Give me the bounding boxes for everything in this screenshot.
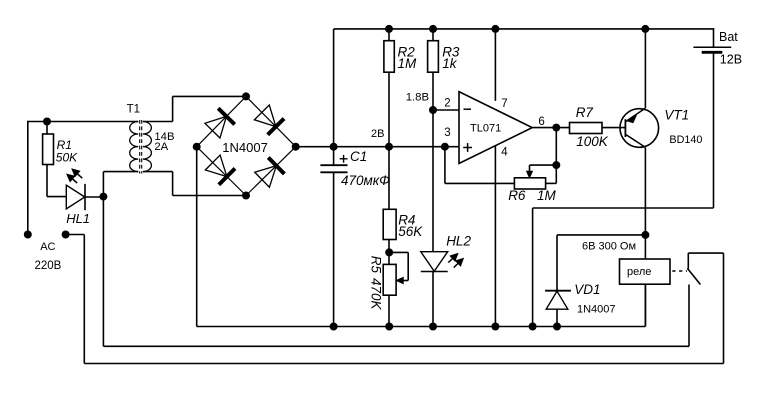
svg-text:HL1: HL1 <box>66 211 90 226</box>
svg-text:56K: 56K <box>398 224 423 239</box>
svg-text:1N4007: 1N4007 <box>577 303 616 315</box>
svg-text:1k: 1k <box>442 56 458 71</box>
svg-text:C1: C1 <box>350 149 367 164</box>
svg-text:100K: 100K <box>576 134 609 149</box>
svg-text:7: 7 <box>501 98 507 110</box>
svg-text:R5: R5 <box>369 256 384 274</box>
svg-text:BD140: BD140 <box>669 134 702 146</box>
svg-text:R6: R6 <box>508 188 526 203</box>
svg-text:3: 3 <box>444 127 450 139</box>
svg-text:AC: AC <box>40 241 55 253</box>
svg-text:R7: R7 <box>576 105 594 120</box>
svg-text:220В: 220В <box>35 260 62 272</box>
svg-text:6: 6 <box>538 116 544 128</box>
svg-text:HL2: HL2 <box>446 234 471 249</box>
svg-text:12В: 12В <box>720 53 742 67</box>
svg-text:2: 2 <box>444 98 450 110</box>
svg-text:2A: 2A <box>154 141 168 153</box>
svg-text:Bat: Bat <box>719 30 738 44</box>
svg-text:VT1: VT1 <box>664 107 689 122</box>
svg-text:470мкФ: 470мкФ <box>341 173 390 188</box>
svg-text:4: 4 <box>501 147 508 159</box>
svg-text:1M: 1M <box>398 56 418 71</box>
svg-text:1M: 1M <box>537 188 557 203</box>
svg-text:VD1: VD1 <box>574 282 600 297</box>
svg-text:TL071: TL071 <box>470 122 501 134</box>
svg-text:470K: 470K <box>369 278 384 311</box>
svg-text:50K: 50K <box>56 151 78 165</box>
svg-text:1.8В: 1.8В <box>406 91 429 103</box>
svg-text:T1: T1 <box>127 103 140 115</box>
svg-text:2В: 2В <box>371 128 384 140</box>
svg-text:6В 300 Ом: 6В 300 Ом <box>582 241 636 253</box>
svg-text:1N4007: 1N4007 <box>222 140 268 155</box>
svg-text:реле: реле <box>627 266 651 278</box>
